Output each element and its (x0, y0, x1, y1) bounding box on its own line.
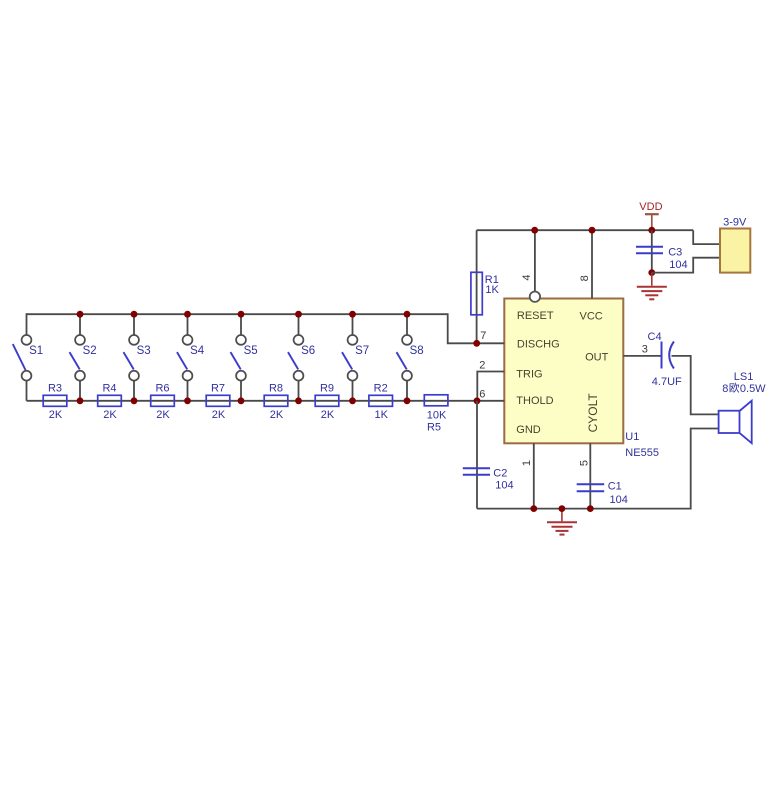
node junction pin7/R1 (473, 340, 480, 347)
switch S3 (124, 314, 151, 401)
capacitor C2 value 104 (463, 401, 514, 509)
svg-text:2K: 2K (270, 409, 284, 421)
node top rail junction S4 (184, 311, 191, 318)
svg-text:S7: S7 (355, 345, 369, 357)
wire top rail of switch bank (27, 314, 474, 343)
resistor R9 value 2K (315, 383, 339, 421)
svg-text:3: 3 (642, 343, 648, 355)
resistor R1 value 1K (471, 272, 500, 315)
node top rail junction S6 (295, 311, 302, 318)
svg-text:R2: R2 (374, 383, 388, 395)
svg-text:TRIG: TRIG (516, 369, 542, 381)
pin 6 THOLD wire (477, 388, 504, 401)
svg-text:104: 104 (669, 259, 687, 271)
pin 8 wire (579, 230, 592, 298)
svg-text:RESET: RESET (517, 310, 554, 322)
svg-text:U1: U1 (625, 431, 639, 443)
svg-text:CYOLT: CYOLT (586, 393, 600, 433)
switch S2 (70, 314, 97, 401)
svg-text:VCC: VCC (580, 310, 603, 322)
svg-text:8: 8 (722, 383, 728, 395)
svg-text:5: 5 (579, 460, 591, 466)
pin 4 wire with reset bubble (521, 230, 540, 302)
resistor R6 value 2K (151, 383, 175, 421)
resistor R7 value 2K (206, 383, 230, 421)
svg-text:R6: R6 (155, 383, 169, 395)
svg-text:S1: S1 (29, 345, 43, 357)
capacitor C1 value 104 (577, 481, 628, 507)
wire top power rail (477, 229, 694, 231)
node junction pin6 (474, 397, 481, 404)
svg-text:2K: 2K (103, 409, 117, 421)
svg-text:C1: C1 (608, 481, 622, 493)
capacitor C4 value 4.7UF polarized (648, 331, 683, 388)
op-amp U1 NE555 timer IC body (504, 299, 623, 444)
node bottom rail junction S2 (77, 397, 84, 404)
node pin5 bottom junction (587, 505, 594, 512)
svg-text:4.7UF: 4.7UF (652, 376, 682, 388)
svg-text:2K: 2K (156, 409, 170, 421)
node pin1 bottom junction (530, 505, 537, 512)
node top rail junction S2 (77, 311, 84, 318)
node ground junction (559, 505, 566, 512)
battery 3-9V (720, 216, 750, 272)
wire bottom rail of switch bank (27, 400, 478, 402)
svg-text:C3: C3 (668, 247, 682, 259)
node bottom rail junction S6 (295, 397, 302, 404)
node C3 bottom junction (648, 269, 655, 276)
switch S8 (397, 314, 424, 401)
speaker LS1 8ohm 0.5W (719, 371, 767, 443)
svg-text:104: 104 (495, 480, 513, 492)
svg-text:R3: R3 (48, 383, 62, 395)
svg-text:104: 104 (610, 494, 628, 506)
node bottom rail junction S3 (131, 397, 138, 404)
svg-text:VDD: VDD (639, 201, 662, 213)
svg-text:3-9V: 3-9V (723, 216, 747, 228)
wire battery top lead (693, 230, 720, 244)
svg-text:1: 1 (521, 460, 533, 466)
svg-text:R8: R8 (269, 383, 283, 395)
wire pin6 to bottom rail through C2 (476, 401, 478, 509)
capacitor C3 value 104 (636, 247, 688, 272)
switch S4 (177, 314, 205, 401)
svg-text:S6: S6 (301, 345, 315, 357)
node VDD junction (648, 227, 655, 234)
power VDD symbol (639, 201, 662, 230)
wire R1 vertical branch (476, 230, 478, 343)
svg-text:R4: R4 (102, 383, 116, 395)
svg-text:S4: S4 (190, 345, 205, 357)
ground under C3 (637, 273, 667, 300)
svg-text:R9: R9 (320, 383, 334, 395)
svg-text:S8: S8 (410, 345, 424, 357)
svg-text:THOLD: THOLD (516, 395, 553, 407)
node bottom rail junction S5 (238, 397, 245, 404)
svg-text:2: 2 (479, 360, 485, 372)
wire C4 to speaker (672, 356, 719, 415)
resistor R4 value 2K (98, 383, 122, 421)
resistor R2 value 1K (369, 383, 393, 421)
resistor R3 value 2K (43, 383, 67, 421)
svg-text:S2: S2 (83, 345, 97, 357)
node pin4 junction (531, 227, 538, 234)
node top rail junction S5 (238, 311, 245, 318)
svg-text:1K: 1K (485, 284, 499, 296)
node top rail junction S3 (131, 311, 138, 318)
node top rail junction S8 (404, 311, 411, 318)
svg-text:LS1: LS1 (734, 371, 754, 383)
svg-text:C2: C2 (493, 467, 507, 479)
svg-text:C4: C4 (648, 331, 662, 343)
svg-text:R7: R7 (211, 383, 225, 395)
svg-text:NE555: NE555 (625, 447, 659, 459)
svg-text:7: 7 (480, 330, 486, 342)
wire battery bottom lead (652, 258, 720, 273)
node bottom rail junction S7 (349, 397, 356, 404)
svg-text:1K: 1K (374, 409, 388, 421)
svg-text:10K: 10K (427, 410, 447, 422)
svg-text:2K: 2K (321, 409, 335, 421)
pin 3 OUT wire (623, 343, 661, 356)
svg-text:DISCHG: DISCHG (517, 339, 560, 351)
svg-text:2K: 2K (49, 409, 63, 421)
svg-text:6: 6 (479, 388, 485, 400)
wire speaker return to ground rail (477, 429, 719, 509)
wire C3 vertical (651, 230, 653, 272)
resistor R8 value 2K (264, 383, 288, 421)
resistor R5 value 10K (424, 395, 448, 434)
svg-text:0.5W: 0.5W (740, 383, 766, 395)
svg-text:S3: S3 (137, 345, 151, 357)
svg-text:OUT: OUT (585, 352, 609, 364)
node top rail junction S7 (349, 311, 356, 318)
pin 1 GND wire (521, 443, 534, 508)
switch S5 (231, 314, 258, 401)
pin 7 DISCHG wire (474, 330, 505, 344)
switch S7 (342, 314, 369, 401)
svg-text:S5: S5 (244, 345, 258, 357)
node bottom rail junction S4 (184, 397, 191, 404)
pin 5 CVOLT wire (579, 443, 591, 508)
svg-text:R5: R5 (427, 421, 441, 433)
node pin8 junction (589, 227, 596, 234)
ground main symbol (547, 509, 577, 535)
svg-text:8: 8 (579, 275, 591, 281)
svg-text:4: 4 (521, 274, 533, 280)
svg-text:2K: 2K (212, 409, 226, 421)
node bottom rail junction S8 (404, 397, 411, 404)
svg-text:GND: GND (516, 424, 541, 436)
pin 2 TRIG wire (477, 360, 504, 399)
switch S1 (13, 313, 43, 401)
switch S6 (288, 314, 315, 401)
